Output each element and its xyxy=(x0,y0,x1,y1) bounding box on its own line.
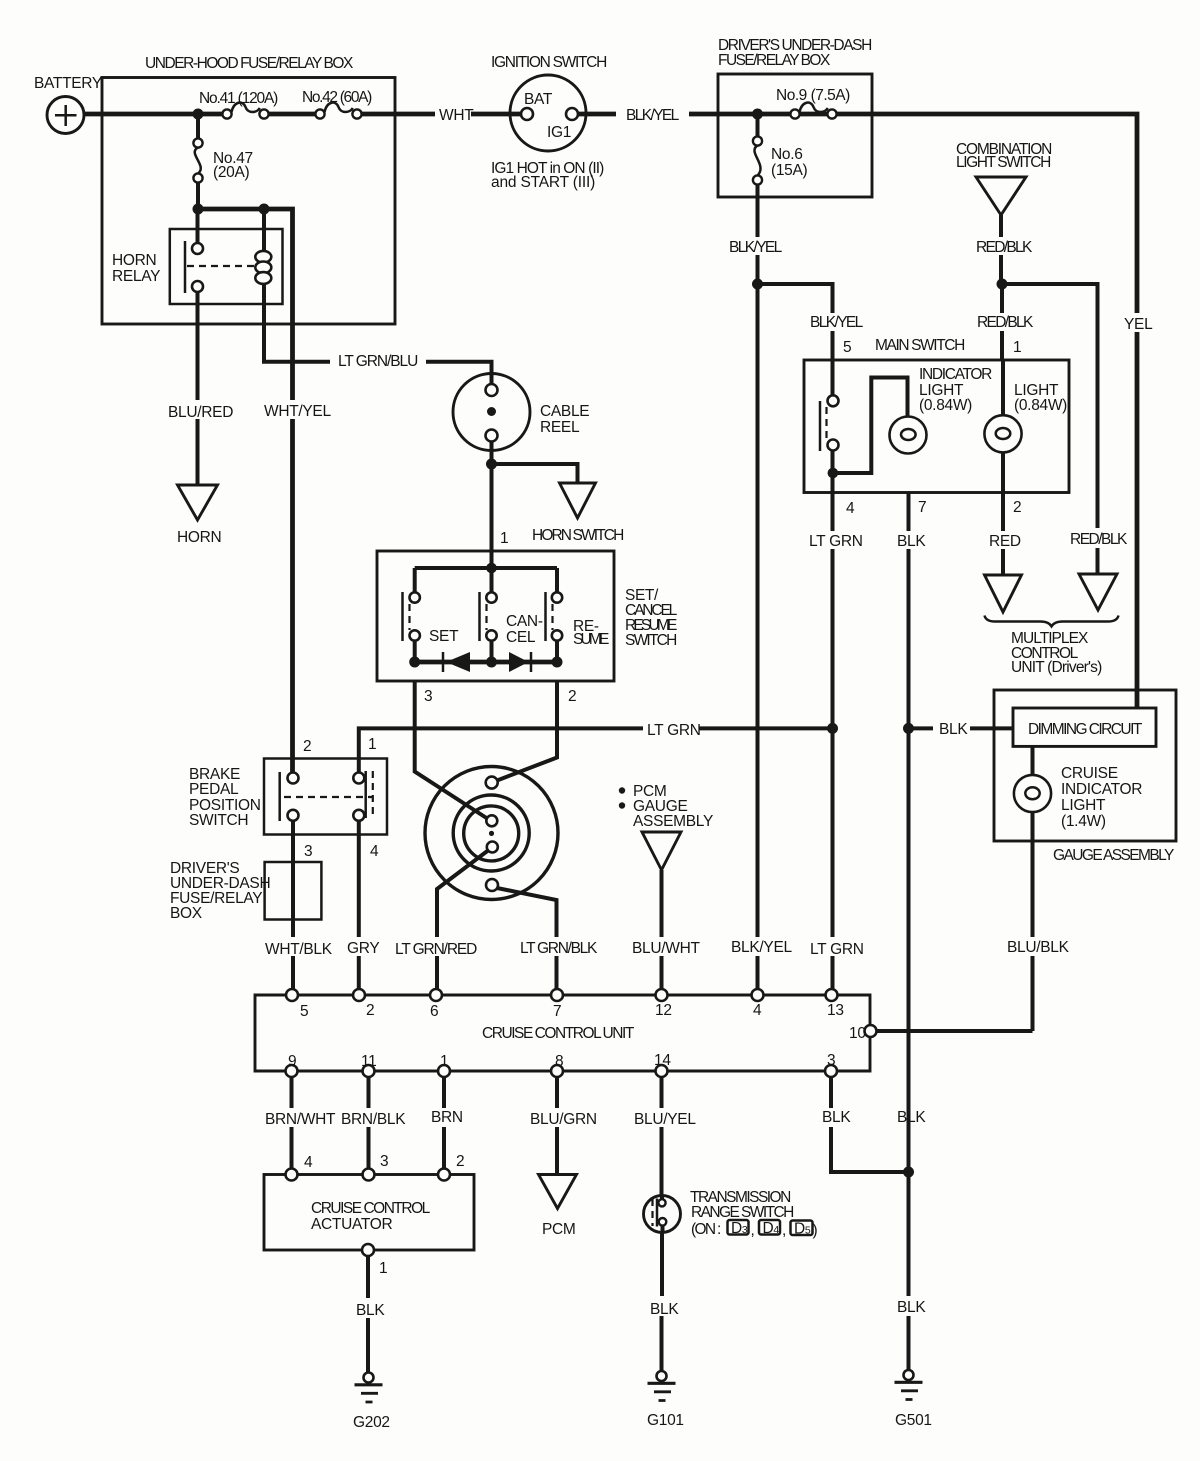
svg-text:BLK: BLK xyxy=(897,1109,926,1126)
svg-text:CAN-: CAN- xyxy=(506,613,543,630)
svg-text:BLK: BLK xyxy=(939,721,968,738)
svg-text:PEDAL: PEDAL xyxy=(189,781,239,798)
svg-text:(20A): (20A) xyxy=(213,164,250,181)
svg-text:CRUISE CONTROL UNIT: CRUISE CONTROL UNIT xyxy=(482,1025,635,1042)
svg-text:YEL: YEL xyxy=(1124,316,1153,333)
svg-text:WHT/YEL: WHT/YEL xyxy=(264,403,331,420)
svg-text:No.6: No.6 xyxy=(771,146,803,163)
svg-text:BLK/YEL: BLK/YEL xyxy=(729,239,783,256)
svg-text:RELAY: RELAY xyxy=(112,268,160,285)
svg-text:SUME: SUME xyxy=(573,631,609,648)
svg-text:UNDER-HOOD FUSE/RELAY BOX: UNDER-HOOD FUSE/RELAY BOX xyxy=(145,55,354,72)
svg-text:11: 11 xyxy=(361,1053,377,1070)
svg-text:WHT/BLK: WHT/BLK xyxy=(265,941,333,958)
svg-text:3: 3 xyxy=(424,688,432,705)
svg-text:No.42 (60A): No.42 (60A) xyxy=(302,89,372,106)
svg-text:INDICATOR: INDICATOR xyxy=(919,366,992,383)
svg-text:CABLE: CABLE xyxy=(540,403,589,420)
svg-text:1: 1 xyxy=(500,530,508,547)
svg-text:BLK/YEL: BLK/YEL xyxy=(810,314,864,331)
svg-text:GAUGE ASSEMBLY: GAUGE ASSEMBLY xyxy=(1053,847,1174,864)
svg-text:CEL: CEL xyxy=(506,629,536,646)
svg-text:BLK/YEL: BLK/YEL xyxy=(731,939,792,956)
svg-text:G202: G202 xyxy=(353,1414,390,1431)
svg-text:RED: RED xyxy=(989,533,1021,550)
svg-text:LT GRN: LT GRN xyxy=(810,941,864,958)
svg-text:4: 4 xyxy=(370,843,379,860)
svg-text:3: 3 xyxy=(380,1153,388,1170)
svg-text:WHT: WHT xyxy=(439,107,474,124)
svg-text:LT GRN/RED: LT GRN/RED xyxy=(395,941,477,958)
svg-text:LIGHT SWITCH: LIGHT SWITCH xyxy=(956,154,1051,171)
svg-text:BAT: BAT xyxy=(524,91,553,108)
svg-text:BLK: BLK xyxy=(356,1302,385,1319)
svg-text:ACTUATOR: ACTUATOR xyxy=(311,1216,393,1233)
svg-text:9: 9 xyxy=(288,1053,296,1070)
svg-text:FUSE/RELAY BOX: FUSE/RELAY BOX xyxy=(718,52,831,69)
svg-text:ASSEMBLY: ASSEMBLY xyxy=(633,813,713,830)
svg-text:(1.4W): (1.4W) xyxy=(1061,813,1106,830)
svg-text:BLK: BLK xyxy=(650,1301,679,1318)
svg-text:BLU/WHT: BLU/WHT xyxy=(632,940,700,957)
svg-text:RED/BLK: RED/BLK xyxy=(977,314,1034,331)
svg-text:13: 13 xyxy=(827,1002,844,1019)
svg-text:7: 7 xyxy=(553,1003,561,1020)
svg-text:PCM: PCM xyxy=(542,1221,576,1238)
svg-text:BLK: BLK xyxy=(897,1299,926,1316)
svg-text:BRN: BRN xyxy=(431,1109,463,1126)
svg-text:2: 2 xyxy=(303,738,311,755)
svg-text:LIGHT: LIGHT xyxy=(1061,797,1106,814)
svg-text:G101: G101 xyxy=(647,1412,684,1429)
svg-text:8: 8 xyxy=(555,1053,563,1070)
svg-text:(0.84W): (0.84W) xyxy=(1014,397,1067,414)
svg-text:1: 1 xyxy=(368,736,376,753)
svg-text:RED/BLK: RED/BLK xyxy=(1070,531,1128,548)
svg-text:BLU/BLK: BLU/BLK xyxy=(1007,939,1070,956)
svg-text:SWITCH: SWITCH xyxy=(625,632,677,649)
svg-text:5: 5 xyxy=(300,1003,308,1020)
svg-text:BLU/YEL: BLU/YEL xyxy=(634,1111,696,1128)
svg-text:IG1: IG1 xyxy=(547,124,571,141)
svg-text:2: 2 xyxy=(456,1153,464,1170)
svg-text:CRUISE CONTROL: CRUISE CONTROL xyxy=(311,1200,431,1217)
svg-text:2: 2 xyxy=(1013,499,1021,516)
svg-text:(0.84W): (0.84W) xyxy=(919,397,972,414)
svg-text:1: 1 xyxy=(379,1260,387,1277)
svg-text:(15A): (15A) xyxy=(771,162,808,179)
svg-text:4: 4 xyxy=(846,500,855,517)
svg-text:BRN/WHT: BRN/WHT xyxy=(265,1111,336,1128)
svg-text:7: 7 xyxy=(918,499,926,516)
svg-text:No.41 (120A): No.41 (120A) xyxy=(199,90,278,107)
svg-text:RED/BLK: RED/BLK xyxy=(976,239,1033,256)
svg-text:1: 1 xyxy=(1013,339,1021,356)
svg-text:(ON :: (ON : xyxy=(691,1221,721,1238)
svg-text:G501: G501 xyxy=(895,1412,932,1429)
svg-text:14: 14 xyxy=(654,1052,671,1069)
svg-text:BLK: BLK xyxy=(897,533,926,550)
svg-text:LT GRN: LT GRN xyxy=(809,533,863,550)
svg-text:HORN SWITCH: HORN SWITCH xyxy=(532,527,624,544)
svg-text:INDICATOR: INDICATOR xyxy=(1061,781,1142,798)
svg-text:BATTERY: BATTERY xyxy=(34,75,102,92)
svg-text:No.9 (7.5A): No.9 (7.5A) xyxy=(776,87,850,104)
svg-text:GRY: GRY xyxy=(347,940,379,957)
svg-text:12: 12 xyxy=(655,1002,672,1019)
svg-text:): ) xyxy=(813,1222,818,1239)
svg-text:BRN/BLK: BRN/BLK xyxy=(341,1111,406,1128)
svg-text:SWITCH: SWITCH xyxy=(189,812,248,829)
svg-text:CRUISE: CRUISE xyxy=(1061,765,1118,782)
svg-text:2: 2 xyxy=(568,688,576,705)
svg-text:BLU/RED: BLU/RED xyxy=(168,404,233,421)
svg-text:UNIT (Driver's): UNIT (Driver's) xyxy=(1011,659,1102,676)
svg-text:DIMMING CIRCUIT: DIMMING CIRCUIT xyxy=(1028,721,1143,738)
svg-text:3: 3 xyxy=(304,843,312,860)
svg-text:IGNITION SWITCH: IGNITION SWITCH xyxy=(491,54,607,71)
svg-text:2: 2 xyxy=(366,1002,374,1019)
svg-text:1: 1 xyxy=(440,1053,448,1070)
svg-text:BLK: BLK xyxy=(822,1109,851,1126)
svg-text:,: , xyxy=(751,1222,755,1239)
svg-text:HORN: HORN xyxy=(177,529,221,546)
svg-text:LT GRN/BLU: LT GRN/BLU xyxy=(338,353,418,370)
svg-text:SET: SET xyxy=(429,628,459,645)
svg-text:3: 3 xyxy=(827,1052,835,1069)
svg-text:LT GRN: LT GRN xyxy=(647,722,701,739)
svg-text:10: 10 xyxy=(849,1025,866,1042)
svg-text:HORN: HORN xyxy=(112,252,156,269)
svg-text:BLK/YEL: BLK/YEL xyxy=(626,107,680,124)
svg-text:5: 5 xyxy=(843,339,851,356)
svg-text:MAIN SWITCH: MAIN SWITCH xyxy=(875,337,965,354)
svg-text:4: 4 xyxy=(753,1002,762,1019)
svg-text:BLU/GRN: BLU/GRN xyxy=(530,1111,597,1128)
svg-text:RANGE SWITCH: RANGE SWITCH xyxy=(691,1204,794,1221)
svg-text:BOX: BOX xyxy=(170,905,203,922)
svg-text:REEL: REEL xyxy=(540,419,580,436)
svg-text:and START (III): and START (III) xyxy=(491,174,595,191)
svg-text:,: , xyxy=(782,1222,786,1239)
svg-text:6: 6 xyxy=(430,1003,438,1020)
svg-text:4: 4 xyxy=(304,1154,313,1171)
svg-text:LT GRN/BLK: LT GRN/BLK xyxy=(520,940,598,957)
